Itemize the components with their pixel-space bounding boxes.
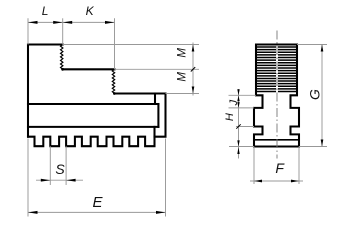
arrow F right xyxy=(291,180,299,183)
arrow L right xyxy=(53,21,63,24)
dimension line E xyxy=(28,211,166,213)
svg-text:M: M xyxy=(176,72,188,82)
extension line L/K middle xyxy=(62,18,64,44)
arrow G bottom xyxy=(321,140,324,147)
svg-text:H: H xyxy=(224,113,236,121)
arrow below bottom ext (outside) xyxy=(237,147,239,154)
centerline xyxy=(276,31,278,159)
svg-text:K: K xyxy=(86,4,95,18)
step 1 surface xyxy=(63,68,115,70)
internal edge below tongue xyxy=(153,127,155,137)
dimension line F xyxy=(250,180,303,182)
extension line S right xyxy=(65,146,67,185)
svg-text:S: S xyxy=(55,161,65,177)
dimension line G xyxy=(321,45,323,147)
clamping serrations xyxy=(257,47,296,92)
dimension line M xyxy=(192,43,194,96)
serrated step edge 1 xyxy=(61,45,63,70)
extension line F left xyxy=(253,147,255,185)
tick H middle xyxy=(236,124,240,128)
arrow J inside up xyxy=(237,96,239,102)
arrow S right (outside) xyxy=(66,179,76,182)
serration end dot 1 xyxy=(61,68,64,71)
svg-text:M: M xyxy=(176,48,188,58)
extension line M bottom xyxy=(166,93,200,95)
left edge xyxy=(27,45,29,137)
guide tongue right end xyxy=(157,104,159,127)
arrow E left xyxy=(28,211,38,214)
extension line J bottom / H top xyxy=(229,107,255,109)
extension line bottom left xyxy=(229,146,254,148)
arrow K left xyxy=(63,21,72,24)
dimension line S xyxy=(36,179,83,181)
cross-section outline xyxy=(254,45,299,147)
dimension line L-K xyxy=(28,21,115,23)
serrated step edge 2 xyxy=(112,69,114,93)
svg-text:J: J xyxy=(228,99,240,106)
tick M middle xyxy=(191,67,195,71)
bottom block internal line xyxy=(254,139,299,141)
step 2 surface to right edge xyxy=(115,92,166,94)
extension line M middle xyxy=(115,68,200,70)
serration end dot 2 xyxy=(113,92,116,95)
extension line M top xyxy=(63,44,199,46)
arrow M top xyxy=(192,45,195,52)
extension line G top xyxy=(297,44,327,46)
svg-text:F: F xyxy=(275,160,285,176)
extension line F right xyxy=(298,147,300,185)
svg-text:E: E xyxy=(92,194,103,211)
arrow G top xyxy=(321,45,324,52)
arrow K right xyxy=(105,21,115,24)
arrow M bottom xyxy=(192,87,195,94)
extension line E left xyxy=(27,139,29,217)
right edge xyxy=(155,94,166,137)
arrow F left xyxy=(254,180,262,183)
extension line L left xyxy=(27,18,29,44)
extension line J top xyxy=(229,94,257,96)
arrow H bottom inside down xyxy=(237,140,239,146)
guide tongue bottom xyxy=(28,126,158,128)
svg-text:G: G xyxy=(306,89,322,100)
jaw top and right outline xyxy=(28,43,63,45)
arrow E right xyxy=(156,211,166,214)
extension line K right xyxy=(114,18,116,69)
arrow J inside down xyxy=(237,102,239,108)
svg-text:L: L xyxy=(42,4,49,18)
extension line H middle xyxy=(236,126,254,128)
extension line E right xyxy=(165,139,167,217)
extension line S left xyxy=(49,146,51,185)
centerline seam through serrations xyxy=(276,46,278,94)
internal edge above tongue xyxy=(154,94,156,105)
arrow S left (outside) xyxy=(41,179,51,182)
guide tongue top xyxy=(28,103,158,105)
arrow L left xyxy=(28,21,38,24)
dimension line J-H xyxy=(238,89,240,159)
bottom rack teeth xyxy=(28,137,155,147)
extension line G bottom xyxy=(299,146,327,148)
arrow above J top ext (outside) xyxy=(237,89,239,95)
